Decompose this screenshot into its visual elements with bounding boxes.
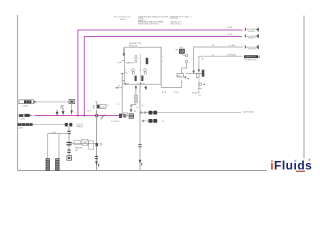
svg-text:DWG LR23-10: DWG LR23-10 xyxy=(170,23,181,25)
terminal pin of W3 xyxy=(244,45,246,48)
small connector box on bus right of vertical xyxy=(124,113,128,116)
off-page arrow bar of W3 xyxy=(256,45,258,49)
branch to switch cluster xyxy=(69,143,97,145)
svg-text:C0575 (30) B+: C0575 (30) B+ xyxy=(243,111,256,113)
U1 below-box pin ticks left xyxy=(123,83,129,85)
horizontal link wire at y73.6 xyxy=(186,73,204,75)
connector C1 (left, top) shell xyxy=(19,100,34,104)
connector pins right of label box xyxy=(184,76,189,78)
off-page arrow bar of W1 xyxy=(256,28,258,32)
wire A top tiny tick xyxy=(142,105,144,107)
F1 bottom pin stub xyxy=(181,53,183,54)
U1 stub arrowhead xyxy=(123,53,125,56)
svg-text:0.5 NP 1.5: 0.5 NP 1.5 xyxy=(111,121,120,123)
left branch pin xyxy=(116,87,122,89)
frame left border line xyxy=(17,15,19,171)
grey wire W3 horizontal+vertical from cluster xyxy=(194,47,243,71)
inline dark connector pair on C3 wire xyxy=(65,123,68,127)
switch cluster box 2 with X xyxy=(82,139,88,145)
wire A pin circle 2 xyxy=(144,112,146,114)
terminal black box of W4 xyxy=(244,55,258,58)
V3 ground arrowhead xyxy=(95,161,98,165)
connector C1 dark insert xyxy=(24,100,31,103)
logo second-i dot mask xyxy=(294,160,297,162)
splice tick on V1 xyxy=(130,105,133,107)
frame right border line xyxy=(303,16,305,171)
switch cluster box 1 xyxy=(74,140,80,145)
X69 connector pair 3 xyxy=(67,150,70,152)
pink bus wire from connector C2 xyxy=(34,115,122,117)
wire from C1 xyxy=(36,101,69,103)
its top pin tick xyxy=(121,73,124,75)
svg-text:SW: SW xyxy=(75,150,78,152)
ground drop wire right xyxy=(58,134,60,159)
long ground wire V2 xyxy=(139,85,141,170)
U1 pin tick between xyxy=(134,58,139,60)
ground stack G1 xyxy=(46,159,50,171)
wire A horizontal to right connector xyxy=(140,112,241,114)
off-page arrow bar of W2 xyxy=(256,34,258,38)
junction connector JB above bus xyxy=(94,101,110,109)
U1 coil circle D xyxy=(144,72,147,75)
X69 terminal box xyxy=(67,156,72,161)
switch cluster box 3 xyxy=(89,141,94,149)
side arrow mark near V2 top xyxy=(144,86,147,90)
U1 inner divider line xyxy=(139,54,141,84)
ground hatch box E1 xyxy=(129,114,134,119)
V1 arrowhead xyxy=(135,86,137,89)
starter pin circle xyxy=(199,83,202,86)
wire B short horizontal xyxy=(142,120,158,122)
iFluids logo xyxy=(270,158,312,172)
pink wire W1 (battery feed) vertical+horizontal to terminal 1 xyxy=(78,30,243,116)
splice arrow S2 into bus xyxy=(62,108,64,115)
bus junction dot at W1 xyxy=(77,115,79,117)
U1 bottom-left pin stub xyxy=(122,80,125,82)
svg-text:STARTER RLY: STARTER RLY xyxy=(245,56,257,59)
wire B inline connector dark pair xyxy=(149,119,153,123)
logo red underline accent xyxy=(296,171,305,172)
logo second-i light blue dot xyxy=(294,160,296,162)
fuse F1 hatched box xyxy=(179,49,184,53)
bus junction diagonal mark xyxy=(101,115,105,120)
wire B pin circle xyxy=(142,120,144,122)
V2 ground side mark xyxy=(141,163,142,167)
svg-text:Fluids: Fluids xyxy=(274,158,312,172)
iFluids logo white backing xyxy=(267,159,314,178)
wire A inline connector dark pair xyxy=(149,111,153,115)
bus end junction dark cluster xyxy=(119,114,122,118)
dark fuse bar F2 xyxy=(202,70,205,77)
bus junction dot at W2 xyxy=(83,115,85,117)
pink wire W2 vertical+horizontal to terminal 2 xyxy=(84,37,242,116)
bus junction dark dot at main vertical xyxy=(95,114,97,117)
svg-text:FUSE 11: FUSE 11 xyxy=(248,31,256,33)
V3 inline connector bars xyxy=(95,156,98,158)
floating label box on C3 wire xyxy=(77,124,83,127)
wire V1 from U1 down xyxy=(135,85,137,95)
ground stack G2 xyxy=(56,159,60,171)
inline component box on C1 wire xyxy=(69,100,75,104)
U1 coil circle A xyxy=(132,69,135,72)
switch pin blob to main vertical xyxy=(96,143,99,146)
V3 ground side mark xyxy=(98,164,100,168)
svg-text:1.5 N: 1.5 N xyxy=(87,111,92,113)
starter dark pin xyxy=(203,83,205,85)
wire from C3 xyxy=(34,124,69,126)
svg-text:17MY ON: 17MY ON xyxy=(170,18,178,20)
branch pin dot xyxy=(116,87,118,89)
vertical wire right of bus xyxy=(121,74,123,116)
V1 lower wire elbow to splice xyxy=(131,102,136,109)
svg-text:0.5 NP: 0.5 NP xyxy=(227,27,233,29)
bus grey nub xyxy=(122,115,127,117)
svg-text:ISSUE 1: ISSUE 1 xyxy=(120,19,127,21)
svg-text:FUSE 13: FUSE 13 xyxy=(248,38,256,40)
V2 ground arrowhead xyxy=(139,160,142,164)
arrowhead into bus xyxy=(70,110,72,115)
svg-text:0.5 NP: 0.5 NP xyxy=(227,34,233,36)
W4 terminal end cap xyxy=(258,56,260,58)
terminal box inner mark xyxy=(68,157,70,159)
connector label box C0575 xyxy=(177,74,183,77)
link F1 to P1 xyxy=(182,54,186,55)
ground drop wire left xyxy=(47,134,49,159)
small box left of arrow xyxy=(196,73,199,78)
ground branch horizontal xyxy=(48,133,69,135)
W4 lower vertical segment xyxy=(192,79,199,93)
connector C1 pin stub xyxy=(34,101,37,104)
svg-text:0.5 NW ALT: 0.5 NW ALT xyxy=(227,53,238,56)
U1 stub wire with arrow at top-left xyxy=(123,47,125,53)
title block main description text xyxy=(138,15,191,25)
V1 inline connector bar xyxy=(134,95,137,102)
wire loop from pins down-left xyxy=(161,47,182,87)
ground arrowhead into hatch xyxy=(130,109,132,112)
terminal pin of W1 xyxy=(244,28,246,31)
vertical chain X69 xyxy=(68,126,70,155)
U1 coil circle B xyxy=(144,69,147,72)
svg-text:0.5 NW: 0.5 NW xyxy=(229,45,235,47)
U1 pin circle top second xyxy=(135,60,137,62)
connector C2 pin stub xyxy=(30,115,33,117)
W4 drop arrowhead xyxy=(198,70,200,73)
plus pin mark 1 xyxy=(198,87,202,89)
X69 connector pair 1 xyxy=(67,131,70,133)
ECU box U1 outline xyxy=(125,47,161,84)
W3 drop arrowhead xyxy=(192,71,194,74)
V2 inline connector bars xyxy=(138,145,141,147)
wire A pin circle 1 xyxy=(140,112,142,114)
X69 connector pair 2 xyxy=(66,142,71,144)
U1 bottom pin bar right xyxy=(141,76,143,81)
U1 left pin stub xyxy=(122,59,125,61)
svg-text:CHARGING AND STARTING SYSTEM -: CHARGING AND STARTING SYSTEM - V8 ENGINE… xyxy=(138,15,191,18)
connector C3 (left, lower) dark bar xyxy=(18,123,33,126)
U1 below-box pin ticks right xyxy=(137,83,144,85)
svg-text:IGNITION: IGNITION xyxy=(248,49,257,51)
title block small left column text xyxy=(114,16,131,20)
svg-text:ISSUE DATE 05.99 REV A: ISSUE DATE 05.99 REV A xyxy=(138,22,159,25)
wire P2 down to connector label box xyxy=(182,63,187,74)
U1 bottom pin bar left xyxy=(135,76,137,81)
pin circle P2 xyxy=(185,60,188,63)
U1 pin circle top xyxy=(135,55,137,57)
pin circle P1 xyxy=(185,54,188,57)
terminal pin of W2 xyxy=(244,34,246,37)
frame bottom border line xyxy=(18,170,304,172)
main ground vertical V3 xyxy=(96,110,98,171)
U1 internal fuse bar xyxy=(146,58,149,64)
pin circle right of switch blob xyxy=(100,143,102,145)
dark mark inside component xyxy=(70,101,73,103)
svg-text:MAIN RLY: MAIN RLY xyxy=(126,62,135,65)
wire down from component xyxy=(71,104,73,111)
U1 coil circle C xyxy=(132,72,135,75)
splice arrow S1 into bus xyxy=(56,110,58,115)
svg-text:GLOW PLUG: GLOW PLUG xyxy=(245,59,257,61)
grey wire W4 horizontal+vertical xyxy=(199,56,242,69)
connector C2 (left, middle) dark blocks xyxy=(19,114,24,117)
connector C3 pin tail xyxy=(33,124,35,126)
